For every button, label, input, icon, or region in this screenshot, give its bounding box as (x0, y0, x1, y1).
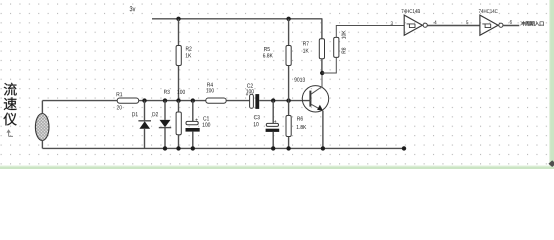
junction collector node (320, 71, 324, 75)
diode D2 (152, 112, 158, 116)
cursor arrow marker (9, 132, 13, 137)
resistor R4 (206, 98, 226, 103)
diode D1 (132, 112, 138, 116)
resistor R2 (176, 46, 181, 66)
resistor R1 (117, 98, 139, 103)
capacitor C1 (203, 116, 209, 120)
corner resize grip (548, 160, 554, 167)
wire sensor bottom (41, 140, 43, 148)
junction bottom-D2 (163, 146, 167, 150)
wire R1 to R4 (139, 100, 206, 102)
schmitt mark U1B (407, 24, 415, 28)
wire sensor top (41, 101, 43, 114)
wire sensor to R1 (42, 100, 117, 102)
bottom scrollbar strip (0, 166, 554, 169)
label flow-meter (Chinese vertical) (4, 83, 17, 96)
junction main-D1 (142, 98, 146, 102)
pin 6 (510, 20, 512, 24)
net label pulse output (Chinese) (520, 21, 525, 26)
wire gate1 out to gate2 in (427, 25, 480, 27)
resistor R7 (303, 42, 309, 46)
junction main-C3 (271, 98, 275, 102)
wire R4 to C2 (226, 100, 249, 102)
junction rail-R5 (286, 17, 290, 21)
inverter U1C 74HC14C (479, 9, 498, 13)
resistor R6 (297, 117, 303, 121)
junction main-R5R6 (286, 98, 290, 102)
capacitor C2 (247, 84, 253, 88)
sensor transducer (flow probe) (35, 114, 49, 141)
schmitt mark U1C (482, 24, 490, 28)
junction bottom-C3 (271, 146, 275, 150)
junction rail-R2 (176, 17, 180, 21)
collector lead (311, 73, 322, 94)
wire rail corner down to R7 (321, 19, 323, 39)
junction bottom-emitter (321, 146, 325, 150)
junction main-D2 (163, 98, 167, 102)
wire R2 bottom lead (178, 66, 180, 101)
wire emitter down (322, 111, 324, 149)
junction main-C1 (191, 98, 195, 102)
bottom wire end node (402, 146, 406, 150)
pin 5 (466, 21, 468, 25)
resistor R3 (164, 90, 170, 94)
junction bottom-R3 (176, 146, 180, 150)
wire ground return (bottom) (42, 147, 404, 149)
wire 3v rail (152, 18, 322, 20)
inverter U1B 74HC14B (402, 9, 421, 13)
net 3v label (130, 6, 136, 11)
wire R2 top lead (178, 19, 180, 46)
resistor R5 (264, 47, 270, 51)
junction bottom-C1 (191, 146, 195, 150)
capacitor C3 (254, 115, 260, 119)
wire R5 top lead (288, 19, 290, 46)
right scrollbar strip (549, 0, 554, 169)
pin 4 (434, 21, 436, 25)
emitter lead with arrow (311, 104, 321, 109)
pin 3 (391, 21, 393, 25)
wire R8 bottom to collector node (322, 57, 336, 73)
junction bottom-R6 (286, 146, 290, 150)
resistor R8 (342, 30, 346, 38)
wire C2 to base (259, 100, 310, 102)
wire R8 top to gate1 (336, 26, 404, 38)
junction main-R2R3 (176, 98, 180, 102)
wire gate2 out (503, 25, 519, 27)
transistor Q1 9013 (294, 78, 305, 82)
wire R5 to main (288, 66, 290, 101)
